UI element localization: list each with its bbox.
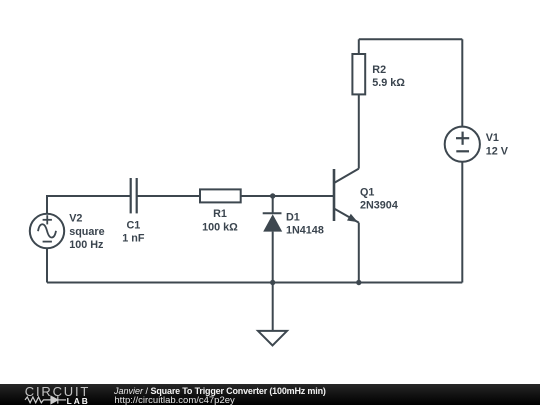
node junction D1 bottom xyxy=(270,280,275,285)
wire collector riser xyxy=(358,94,360,168)
footer bar xyxy=(0,384,540,405)
svg-text:12 V: 12 V xyxy=(486,145,509,157)
node junction at R1/D1 xyxy=(270,193,275,198)
resistor R1 xyxy=(200,189,241,202)
svg-text:1 nF: 1 nF xyxy=(122,233,145,245)
svg-text:R1: R1 xyxy=(213,208,227,220)
CircuitLab logo LAB xyxy=(67,396,90,405)
svg-text:2N3904: 2N3904 xyxy=(360,200,398,212)
wire V1 top xyxy=(461,39,463,126)
transistor Q1 xyxy=(334,169,359,223)
CircuitLab logo zigzag + diode xyxy=(24,394,94,405)
wire emitter riser xyxy=(358,223,360,283)
wire V2 top to C1 xyxy=(47,196,131,214)
svg-text:V2: V2 xyxy=(69,213,82,225)
svg-text:V1: V1 xyxy=(486,132,499,144)
svg-text:C1: C1 xyxy=(126,219,140,231)
wire top rail xyxy=(359,38,463,40)
svg-text:R2: R2 xyxy=(372,64,386,76)
svg-text:100 kΩ: 100 kΩ xyxy=(202,221,238,233)
wire C1 to R1 xyxy=(137,195,200,197)
wire ground stem xyxy=(272,283,274,331)
resistor R2 xyxy=(352,54,365,94)
svg-text:D1: D1 xyxy=(286,211,300,223)
footer title line xyxy=(114,386,326,396)
wire V2 bottom xyxy=(46,248,48,282)
footer url line xyxy=(114,395,234,405)
node junction emitter bottom xyxy=(356,280,361,285)
CircuitLab logo text xyxy=(25,384,90,399)
voltage source V1 xyxy=(445,127,480,162)
svg-text:5.9 kΩ: 5.9 kΩ xyxy=(372,77,405,89)
voltage source V2 xyxy=(30,214,64,248)
svg-text:Q1: Q1 xyxy=(360,187,374,199)
capacitor C1 xyxy=(131,178,137,213)
diode D1 xyxy=(263,213,283,231)
wire bottom rail xyxy=(47,282,462,284)
ground xyxy=(258,331,287,346)
svg-text:square: square xyxy=(69,226,104,238)
wire R2 top xyxy=(358,39,360,54)
wire D1 branch top xyxy=(272,196,274,213)
wire D1 to bottom rail xyxy=(272,232,274,283)
svg-text:100 Hz: 100 Hz xyxy=(69,239,104,251)
wire V1 bottom xyxy=(461,162,463,283)
wire R1 to Q1 base xyxy=(241,195,334,197)
svg-text:1N4148: 1N4148 xyxy=(286,225,324,237)
